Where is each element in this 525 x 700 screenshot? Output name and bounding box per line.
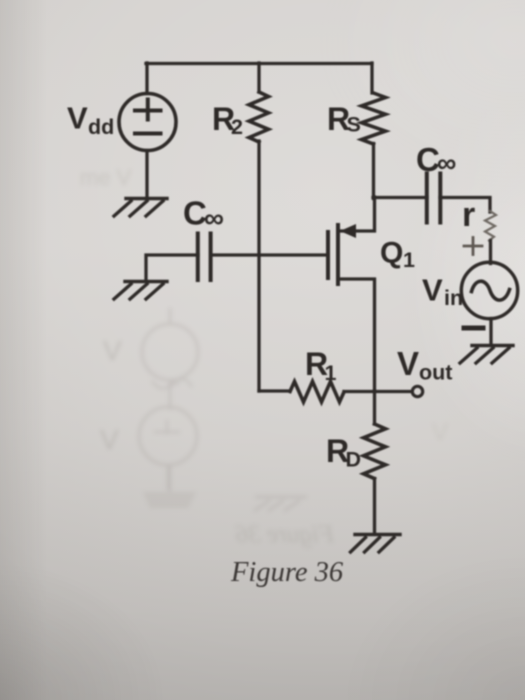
resistor RD: [364, 424, 386, 479]
voltage source Vdd: [119, 94, 176, 151]
svg-text:in: in: [444, 286, 463, 310]
wire r to Vin source: [489, 241, 492, 264]
wire output node to terminal: [375, 390, 411, 393]
svg-text:2: 2: [231, 115, 243, 139]
transistor Q1 arrow: [340, 224, 356, 238]
wire RS bottom to drain node: [372, 144, 375, 199]
svg-text:dd: dd: [88, 115, 114, 139]
resistor R2: [249, 92, 269, 142]
resistor r (penciled squiggle): [485, 211, 496, 241]
ghost bleed source circle lower: [139, 407, 197, 465]
capacitor C-infinity (left): [196, 234, 200, 281]
svg-text:1: 1: [325, 361, 337, 385]
ground bottom: [351, 535, 401, 553]
polarity plus (penciled): [464, 238, 482, 255]
wire top supply rail: [146, 62, 372, 65]
svg-text:Figure 36: Figure 36: [230, 557, 344, 588]
ghost bleed blob: [143, 492, 196, 508]
svg-text:∞: ∞: [437, 148, 456, 178]
ground under Vdd: [114, 199, 167, 217]
ground left (coupling input): [114, 282, 167, 300]
ground under Vin: [460, 346, 513, 364]
wire node to RD: [373, 391, 376, 424]
transistor Q1 drain lead: [341, 197, 375, 231]
polarity minus: [464, 326, 483, 331]
capacitor C-infinity (top right): [425, 174, 429, 223]
svg-text:D: D: [346, 448, 362, 472]
svg-text:out: out: [419, 361, 452, 385]
node Vout open terminal: [412, 386, 422, 396]
source Vin: [461, 262, 517, 318]
svg-text:r: r: [462, 196, 475, 234]
wire R1 left lead: [259, 389, 290, 392]
wire Vin to ground: [489, 319, 492, 345]
svg-text:S: S: [347, 113, 361, 137]
svg-text:1: 1: [403, 248, 415, 272]
wire R2 branch vertical (rail to R1 corner): [257, 63, 260, 92]
svg-text:∞: ∞: [204, 203, 224, 234]
wire RS branch stub: [370, 63, 373, 93]
transistor Q1 gate bar: [326, 232, 330, 278]
wire Vdd to ground: [145, 151, 148, 198]
transistor Q1 channel bar: [336, 225, 340, 284]
wire R1 to output node: [344, 390, 375, 393]
ghost bleed ground mark: [254, 497, 307, 511]
svg-text:V: V: [397, 345, 419, 382]
resistor RS: [362, 93, 386, 144]
wire capacitor to r corner: [440, 198, 490, 213]
wire gate lead: [211, 253, 328, 256]
transistor Q1 source lead: [338, 279, 375, 391]
svg-text:V: V: [67, 101, 88, 136]
wire left cap to ground corner: [146, 255, 198, 280]
svg-text:Q: Q: [380, 237, 403, 270]
svg-text:V: V: [422, 273, 443, 308]
resistor R1: [290, 382, 344, 403]
wire drain node to capacitor: [373, 196, 427, 199]
wire RD to ground: [373, 479, 376, 534]
wire Vdd top stub: [145, 63, 148, 94]
ghost bleed source circle upper: [142, 324, 198, 380]
